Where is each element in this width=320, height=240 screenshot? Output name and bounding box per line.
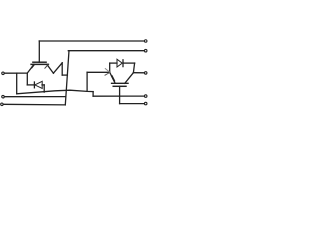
IGBT Q1 gate wire up xyxy=(38,41,40,62)
wire G2 horizontal xyxy=(120,103,145,105)
wire Q2 collector node horizontal xyxy=(87,71,110,73)
wire E2 horizontal xyxy=(4,96,65,98)
terminal C1 (left upper) xyxy=(2,72,5,75)
IGBT Q1 emitter leg (right) xyxy=(47,64,54,73)
wire E1 vertical xyxy=(65,51,69,105)
IGBT Q2 collector arrow wing lower xyxy=(105,73,110,76)
IGBT Q1 gate bar xyxy=(33,61,46,63)
wire midpoint vertical (to Q2 collector node) xyxy=(86,72,88,91)
IGBT Q2 channel bar xyxy=(112,82,128,84)
wire step down to aux emitter line xyxy=(92,92,94,97)
terminal E2 (left lower) xyxy=(2,95,5,98)
wire Q1 emitter diagonal up xyxy=(53,63,62,73)
diode D2 riser right xyxy=(133,63,134,73)
IGBT Q2 gate wire down xyxy=(119,86,121,103)
IGBT Q2 emitter leg (right) xyxy=(125,73,134,84)
diode D1 anode drop xyxy=(43,85,45,92)
diode D1 triangle xyxy=(35,81,42,88)
diode D2 cathode line xyxy=(123,62,135,64)
terminal G1 (right, 1st) xyxy=(144,40,147,43)
diode D2 cathode bar xyxy=(122,60,124,67)
terminal E1 (right, 2nd) xyxy=(144,49,147,52)
wire C1 to Q1 collector node xyxy=(4,72,27,74)
wire E2 aux horizontal xyxy=(3,103,65,106)
diode D1 cathode stub xyxy=(27,84,34,86)
terminal E2 aux (left bottom) xyxy=(1,103,4,106)
diode D2 riser left xyxy=(109,63,111,72)
terminal G2 (right, 5th) xyxy=(144,102,147,105)
wire emitter stub right xyxy=(62,74,67,76)
wire E1 aux horizontal xyxy=(68,50,144,52)
IGBT Q1 collector leg (left, to C1 node) xyxy=(27,64,34,73)
wire G1 horizontal xyxy=(39,40,144,42)
terminal E1 aux (right, 4th) xyxy=(144,95,147,98)
diode D1 cathode bar xyxy=(33,82,35,88)
IGBT Q2 collector leg (left) xyxy=(110,72,116,83)
IGBT Q1 emitter arrow wing xyxy=(45,65,48,69)
diode D1 anode line xyxy=(42,84,44,86)
IGBT Q1 collector leg arrow xyxy=(32,65,34,68)
terminal E1C2 (right, 3rd) xyxy=(144,72,147,75)
IGBT Q2 gate bar xyxy=(113,85,126,87)
IGBT Q1 channel bar xyxy=(31,63,48,65)
wire loop left vertical xyxy=(16,73,18,94)
IGBT Q2 collector arrow wing upper xyxy=(105,69,109,73)
wire C2/E1 midpoint to terminal xyxy=(133,72,144,74)
diode D2 anode line xyxy=(110,62,117,64)
wire aux line to terminal xyxy=(93,95,144,97)
node J1 drop to diode D1 xyxy=(26,73,28,85)
diode D2 triangle xyxy=(117,59,122,67)
IGBT Q2 collector leg arrow xyxy=(112,76,114,81)
wire emitter riser down xyxy=(61,63,63,75)
wire loop bottom xyxy=(17,90,93,94)
